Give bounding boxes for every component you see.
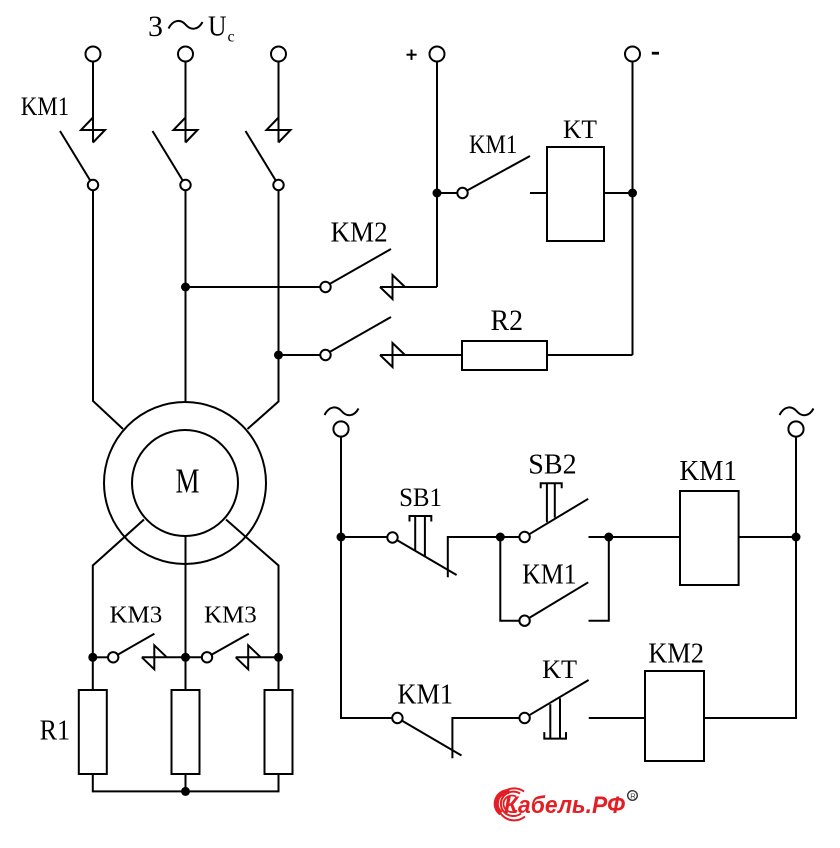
- svg-text:Кабель.РФ: Кабель.РФ: [504, 792, 625, 819]
- wire: rotor lead 1 to KM3.1 pivot: [93, 656, 108, 658]
- junction: plus bus / KM1 aux: [433, 189, 442, 198]
- terminal: control supply left: [333, 421, 348, 436]
- svg-text:KM1: KM1: [469, 130, 517, 159]
- label +: [407, 50, 417, 60]
- wire: KM3 row to R1 element 3: [278, 657, 280, 690]
- wire: KM1 pole 2 to motor stator: [185, 190, 187, 402]
- wire: KM3.1 fixed lead to rotor lead 2: [142, 656, 186, 658]
- wire: SB2 fixed lead to KM1 coil: [589, 536, 681, 538]
- wire: terminal B to KM1 pole 2: [185, 62, 187, 143]
- contactor coil KM2: [645, 671, 704, 761]
- wire: KT coil to minus bus: [604, 192, 633, 194]
- junction: R1 star point: [181, 787, 190, 796]
- junction: phase B tap to KM2.1: [181, 283, 190, 292]
- wire: KM2.2 fixed lead to resistor R2: [380, 354, 462, 356]
- wire: KT contact to KM2 coil: [589, 717, 645, 719]
- wire: R2 to minus bus: [547, 354, 633, 356]
- wire: rotor lead 2 to KM3.2 pivot: [186, 656, 202, 658]
- junction: right bus / KM1 rung: [792, 533, 801, 542]
- svg-text:R: R: [630, 792, 636, 801]
- svg-text:KM2: KM2: [331, 217, 388, 248]
- wire: terminal C to KM1 pole 3: [278, 62, 280, 143]
- contactor contact KM2.2: [320, 317, 405, 367]
- svg-text:3: 3: [148, 10, 163, 43]
- contactor main contact KM1 pole 1: [60, 118, 105, 191]
- wire: KM1 aux to KT coil: [530, 192, 547, 194]
- wire: KM3.2 fixed lead to rotor lead 3: [236, 656, 279, 658]
- svg-text:c: c: [228, 29, 235, 46]
- junction: self-hold return: [604, 533, 613, 542]
- pushbutton SB2 (NO start button): [519, 483, 588, 542]
- logo registered mark: [628, 791, 638, 801]
- svg-text:SB2: SB2: [528, 449, 576, 480]
- auxiliary contact KM1 (NO): [457, 156, 530, 198]
- wire: right control bus: [704, 437, 796, 718]
- resistor R1 element 2: [172, 690, 200, 774]
- wire: phase C tap to KM2.2 pivot: [283, 354, 321, 356]
- wire: KM1 pole 1 to motor stator: [93, 190, 123, 429]
- terminal: control supply right: [788, 421, 803, 436]
- svg-text:KT: KT: [563, 115, 597, 144]
- svg-text:KM3: KM3: [110, 602, 163, 628]
- contactor main contact KM1 pole 3: [246, 118, 291, 191]
- contactor contact KM3.1: [108, 634, 167, 670]
- svg-text:KT: KT: [542, 655, 577, 684]
- resistor R1 element 1: [79, 690, 107, 774]
- svg-text:SB1: SB1: [399, 483, 442, 512]
- terminal phase B: [178, 47, 193, 62]
- junction: SB2 / self-hold branch: [496, 533, 505, 542]
- wire: KM3 row to R1 element 2: [185, 657, 187, 690]
- terminal + (DC supply): [430, 47, 445, 62]
- auxiliary contact KM1 (NC, braking rung): [392, 713, 519, 759]
- control supply tilde (left): [325, 407, 359, 415]
- wire: rotor lead 2: [185, 536, 187, 657]
- logo Кабель.РФ: [496, 788, 637, 820]
- terminal - (DC supply): [625, 47, 640, 62]
- wire: plus bus vertical: [436, 62, 438, 288]
- logo swirl emblem: [496, 788, 525, 820]
- supply tilde mark: [169, 21, 203, 29]
- wire: self-hold branch down: [500, 537, 519, 621]
- terminal phase C: [271, 47, 286, 62]
- time-delay contact KT (NO): [519, 680, 588, 739]
- wire: minus bus vertical: [632, 62, 634, 356]
- junction: left bus / start rung: [337, 533, 346, 542]
- control supply tilde (right): [780, 407, 814, 415]
- svg-text:M: M: [176, 462, 200, 501]
- time relay coil KT: [547, 147, 604, 241]
- wire: self-hold contact to return junction: [589, 537, 609, 621]
- svg-text:KM1: KM1: [21, 92, 69, 121]
- junction: rotor lead 2 / KM3: [181, 653, 190, 662]
- motor M (wound-rotor induction motor): [104, 402, 266, 564]
- svg-text:KM3: KM3: [204, 602, 257, 628]
- junction: rotor lead 3 / KM3.2: [274, 653, 283, 662]
- wire: plus bus to KM1 aux pivot: [437, 192, 457, 194]
- junction: minus bus / KT coil: [628, 189, 637, 198]
- junction: phase C tap to KM2.2: [274, 351, 283, 360]
- svg-text:KM1: KM1: [397, 680, 453, 711]
- wire: KM1 pole 3 to motor stator: [248, 190, 279, 429]
- pushbutton SB1 (NC stop button): [387, 516, 519, 577]
- resistor R1 element 3: [265, 690, 293, 774]
- svg-text:R2: R2: [491, 304, 524, 337]
- wire: R1 element 2 to star point: [185, 774, 187, 791]
- contactor coil KM1: [680, 491, 739, 585]
- wire: left control bus: [341, 437, 392, 718]
- svg-text:KM2: KM2: [648, 639, 704, 670]
- junction: rotor lead 1 / KM3.1: [88, 653, 97, 662]
- svg-text:KM1: KM1: [522, 560, 577, 591]
- contactor main contact KM1 pole 2: [153, 118, 198, 191]
- contactor contact KM2.1: [320, 249, 405, 299]
- wire: rotor lead 1: [93, 520, 144, 658]
- wire: terminal A to KM1 pole 1: [92, 62, 94, 143]
- wire: KM1 coil to right bus: [739, 536, 796, 538]
- svg-text:R1: R1: [40, 715, 70, 746]
- resistor R2: [462, 341, 547, 370]
- wire: phase B tap to KM2.1 pivot: [186, 286, 321, 288]
- svg-text:U: U: [208, 11, 227, 43]
- wire: left bus to SB1: [341, 536, 387, 538]
- wire: KM2.1 fixed lead to plus bus: [380, 286, 437, 288]
- wire: R1 star-point bus: [93, 774, 279, 791]
- wire: rotor lead 3: [226, 520, 279, 658]
- label: 3 ~ Uc supply: [148, 10, 235, 46]
- svg-text:KM1: KM1: [679, 456, 737, 487]
- wire: KM3 row to R1 element 1: [92, 657, 94, 690]
- contactor contact KM3.2: [202, 634, 261, 670]
- auxiliary contact KM1 (self-hold, NO): [519, 582, 588, 626]
- terminal phase A: [86, 47, 101, 62]
- label -: [652, 52, 659, 55]
